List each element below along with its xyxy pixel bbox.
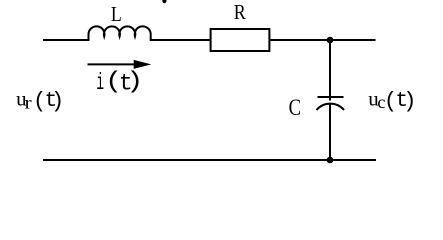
current arrow i(t)	[88, 60, 152, 69]
svg-text:L: L	[111, 4, 122, 27]
stray mark top edge	[162, 0, 166, 3]
svg-text:): )	[51, 89, 64, 114]
wire bottom rail	[43, 159, 376, 161]
resistor R	[211, 29, 270, 51]
wire capacitor branch lower	[329, 104, 331, 160]
svg-text:): )	[126, 68, 143, 95]
node junction dot bottom	[327, 157, 334, 164]
capacitor C top plate	[318, 96, 344, 98]
svg-text:r: r	[25, 93, 33, 113]
svg-text:C: C	[289, 94, 301, 120]
wire from resistor to right end	[270, 39, 376, 41]
svg-text:): )	[403, 89, 416, 114]
inductor L	[89, 26, 151, 41]
capacitor C curved bottom plate	[317, 104, 345, 110]
wire between inductor and resistor	[151, 39, 211, 41]
label i(t)	[96, 68, 143, 96]
svg-text:i: i	[96, 69, 104, 96]
svg-text:R: R	[234, 0, 247, 24]
wire top rail left segment	[43, 39, 89, 41]
wire capacitor branch upper	[329, 40, 331, 101]
label u_c(t) output voltage	[368, 87, 416, 114]
node junction dot top	[327, 37, 334, 44]
label u_r(t) input voltage	[16, 87, 64, 114]
